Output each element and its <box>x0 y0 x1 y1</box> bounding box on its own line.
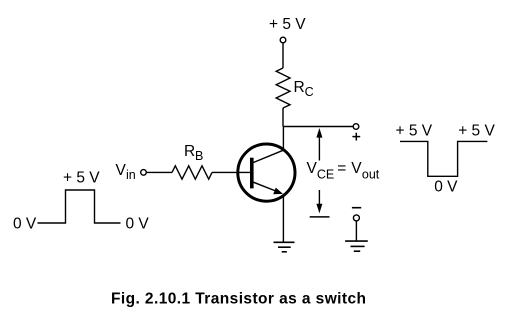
ground (output reference) <box>345 241 368 251</box>
label VCE = Vout <box>307 160 380 182</box>
wire RC to collector node <box>282 108 284 127</box>
label + (output polarity) <box>352 133 360 141</box>
svg-text:+ 5 V: + 5 V <box>458 122 495 139</box>
tick at emitter reference level <box>310 216 330 218</box>
svg-text:B: B <box>195 149 203 163</box>
transistor Q1 base bar <box>250 158 254 189</box>
wire emitter to ground <box>282 195 284 243</box>
terminal Vout + (open circle) <box>353 124 359 130</box>
svg-text:CE: CE <box>317 167 334 181</box>
svg-text:Fig. 2.10.1 Transistor as a sw: Fig. 2.10.1 Transistor as a switch <box>111 290 366 307</box>
svg-text:in: in <box>126 168 136 182</box>
wire − terminal to ground <box>355 221 357 241</box>
wire collector node to + output terminal <box>283 126 353 128</box>
resistor RB <box>172 166 212 179</box>
svg-text:0 V: 0 V <box>126 215 150 232</box>
svg-text:V: V <box>351 160 362 177</box>
label − (output polarity) <box>352 207 361 209</box>
transistor Q1 collector stroke <box>253 150 283 162</box>
svg-text:R: R <box>184 143 195 160</box>
ground (emitter) <box>274 242 295 252</box>
terminal +5V supply (open circle) <box>280 37 286 43</box>
transistor Q1 emitter stroke with arrow <box>253 182 283 194</box>
svg-text:out: out <box>362 167 380 181</box>
wire collector node (vertical into transistor) <box>282 127 284 151</box>
svg-text:V: V <box>116 162 127 179</box>
svg-text:V: V <box>307 160 318 177</box>
svg-text:+ 5 V: + 5 V <box>63 169 100 186</box>
transistor Q1 circle <box>238 144 295 201</box>
svg-text:C: C <box>305 85 314 99</box>
svg-text:+ 5 V: + 5 V <box>269 16 306 33</box>
wire RB to base <box>212 171 250 173</box>
arrow VCE (double-headed measurement arrow) <box>316 128 322 213</box>
svg-text:0 V: 0 V <box>13 215 37 232</box>
wire Vin terminal to RB <box>146 171 172 173</box>
svg-text:+ 5 V: + 5 V <box>396 122 433 139</box>
svg-text:=: = <box>337 160 346 177</box>
svg-text:0 V: 0 V <box>434 179 458 196</box>
input pulse waveform <box>38 190 121 223</box>
resistor RC <box>276 68 290 108</box>
label Vin <box>116 162 136 182</box>
svg-text:R: R <box>294 79 305 96</box>
output waveform (inverted pulse) <box>400 141 487 176</box>
label RC <box>294 79 314 99</box>
wire +5V terminal to RC <box>282 43 284 68</box>
terminal Vin (open circle) <box>141 170 147 176</box>
terminal Vout − (open circle) <box>353 215 359 221</box>
label RB <box>184 143 203 163</box>
